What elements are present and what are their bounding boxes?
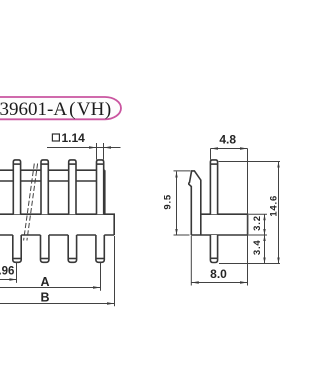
wall second line (interrupted by pins) bbox=[0, 180, 105, 182]
side pin bottom segment bbox=[210, 235, 217, 263]
arrowheads 3.2 bbox=[263, 214, 265, 220]
dim 9.5 top extension bbox=[174, 170, 191, 172]
dim 9.5 line bbox=[176, 172, 178, 236]
side pin top segment bbox=[210, 160, 217, 214]
svg-text:3.96: 3.96 bbox=[0, 266, 14, 278]
arrowheads 4.8 bbox=[211, 147, 219, 150]
dim 3.96 extension bbox=[16, 263, 18, 283]
dim 3.4 line bbox=[264, 235, 266, 264]
pin 2 (front, top) bbox=[41, 160, 48, 214]
arrowheads 9.5 bbox=[175, 172, 177, 178]
svg-text:B: B bbox=[40, 290, 49, 304]
dim 8.0 left extension bbox=[190, 236, 192, 286]
dim 1.14 line bbox=[47, 147, 121, 149]
break lines (double dashed) bbox=[24, 164, 38, 241]
arrowhead B bbox=[107, 302, 115, 305]
pin 1 (front, bottom) bbox=[13, 235, 21, 262]
dim 3.2 extensions bbox=[249, 214, 267, 235]
arrowheads 3.4 bbox=[263, 235, 265, 241]
dim 3.2 line bbox=[264, 214, 266, 235]
pin 1 (front, top) bbox=[13, 160, 20, 214]
wall right end vertical bbox=[104, 170, 106, 214]
dim 14.6 line bbox=[278, 162, 280, 264]
bottom pins bbox=[13, 235, 105, 262]
pin 4 (front, top) bbox=[97, 160, 104, 214]
svg-text:8.0: 8.0 bbox=[210, 267, 227, 281]
arrowhead A bbox=[93, 286, 101, 289]
dim 3.96 line bbox=[0, 279, 17, 281]
pin 3 (front, top) bbox=[69, 160, 76, 214]
base top line and right edge bbox=[0, 214, 114, 235]
svg-text:1.14: 1.14 bbox=[62, 131, 86, 145]
dim B line bbox=[0, 303, 114, 305]
pin tip extension (3.4 / 14.6 bottom) bbox=[219, 263, 280, 265]
svg-text:14.6: 14.6 bbox=[268, 195, 279, 217]
svg-text:3.2: 3.2 bbox=[252, 215, 263, 231]
pin 4 (front, bottom) bbox=[96, 235, 104, 262]
dim 1.14 extension lines bbox=[97, 143, 104, 160]
dim A line bbox=[0, 287, 100, 289]
dim text square 1.14 bbox=[52, 131, 85, 145]
arrowheads 8.0 bbox=[191, 281, 199, 284]
svg-text:4.8: 4.8 bbox=[219, 133, 236, 147]
arrowhead 3.96 bbox=[9, 278, 17, 281]
pin 2 (front, bottom) bbox=[41, 235, 49, 262]
side base slab bbox=[191, 214, 247, 235]
svg-text:A: A bbox=[40, 275, 49, 289]
long right extension (4.8 / 8.0 / base edge) bbox=[247, 149, 249, 286]
dim B extension bbox=[114, 236, 116, 306]
svg-text:39601-A(VH): 39601-A(VH) bbox=[0, 99, 111, 120]
top pins bbox=[13, 160, 103, 214]
dim A extension bbox=[100, 263, 102, 291]
dim 9.5 bottom extension bbox=[174, 234, 190, 236]
svg-text:3.4: 3.4 bbox=[252, 239, 263, 255]
svg-text:9.5: 9.5 bbox=[163, 194, 174, 210]
pin top extension (14.6 top) bbox=[219, 161, 280, 163]
dim 8.0 line bbox=[191, 282, 247, 284]
arrowheads 1.14 bbox=[89, 146, 97, 149]
wall top line (interrupted by pins) bbox=[0, 169, 105, 171]
dim 4.8 line bbox=[211, 148, 248, 150]
base bottom line (interrupted by bottom pins) bbox=[0, 234, 114, 236]
part label 39601-A (VH) bbox=[0, 97, 121, 120]
arrowheads 14.6 bbox=[277, 162, 279, 168]
side wall with latch beak bbox=[189, 171, 248, 235]
dim 4.8 left extension bbox=[210, 149, 212, 160]
pin 3 (front, bottom) bbox=[68, 235, 76, 262]
